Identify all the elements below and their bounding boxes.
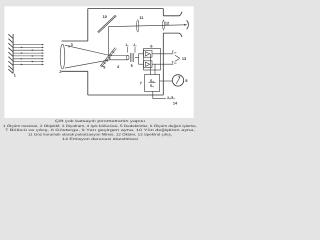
svg-text:3: 3 <box>71 43 73 47</box>
figure panel <box>4 6 193 118</box>
tube 4 <box>110 55 129 59</box>
ray arrowheads <box>21 44 44 65</box>
filters 5 <box>127 47 135 62</box>
lower detector <box>144 61 153 68</box>
detector box 6 <box>144 49 161 71</box>
svg-text:6: 6 <box>150 45 152 49</box>
split vertical <box>138 54 140 64</box>
svg-text:7 Bölücü ve çıkış, 8 Gösterge,: 7 Bölücü ve çıkış, 8 Gösterge, 9 Yarı ge… <box>5 128 195 132</box>
wire to ratio box (lower) <box>154 64 156 74</box>
vertical beam to mirror <box>108 27 110 56</box>
svg-text:10: 10 <box>103 15 107 19</box>
meter 8 <box>172 75 183 86</box>
housing right wall upper <box>162 9 164 16</box>
svg-text:λ₁/λ₂: λ₁/λ₂ <box>166 96 175 100</box>
eyepiece lens 12 <box>162 20 164 31</box>
lens 11 <box>137 20 139 32</box>
housing top line <box>88 8 164 10</box>
eyepiece tube bottom <box>163 33 182 37</box>
top beam to eye <box>109 25 186 27</box>
svg-text:1: 1 <box>14 74 16 78</box>
housing left vertical (lower) <box>87 71 89 95</box>
eye symbol <box>184 20 188 29</box>
object wall 1 <box>8 34 13 74</box>
housing bottom plate <box>62 70 88 72</box>
svg-text:8: 8 <box>185 79 187 83</box>
svg-text:T₂ₑ: T₂ₑ <box>172 61 177 65</box>
upper output to T1 <box>152 53 173 55</box>
svg-text:T₁ₑ: T₁ₑ <box>172 50 177 54</box>
mirror 10 <box>98 15 116 32</box>
diaphragm 3 tick <box>68 45 70 48</box>
lower output to T2 <box>152 63 173 65</box>
T1 T2 output labels <box>172 50 177 64</box>
svg-text:Çift çok katsayılı pirometreni: Çift çok katsayılı pirometrenin yapısı <box>55 119 145 123</box>
rays from object <box>13 45 42 65</box>
cone top line <box>65 45 110 55</box>
brace 13 <box>175 55 180 58</box>
svg-text:11: 11 <box>139 16 143 20</box>
upper detector <box>144 50 153 57</box>
svg-text:14 Emisyon derecesi düzeltmesi: 14 Emisyon derecesi düzeltmesi <box>62 137 138 141</box>
svg-text:2: 2 <box>59 70 61 74</box>
housing top plate <box>62 40 88 42</box>
S1/S2 fraction in box 7 <box>150 79 154 88</box>
svg-text:13: 13 <box>182 57 186 61</box>
lambda labels over filters <box>125 43 138 47</box>
wire box7 to meter <box>160 80 173 82</box>
svg-text:7: 7 <box>140 81 142 85</box>
upper channel line <box>139 53 144 55</box>
numeral labels <box>14 15 188 106</box>
lower channel line <box>139 63 144 65</box>
objective lens 2 <box>60 44 65 69</box>
housing right wall lower <box>162 33 164 95</box>
svg-text:λ₁: λ₁ <box>125 43 129 47</box>
beam to split <box>135 57 139 59</box>
wire to ratio box (upper) <box>149 54 151 75</box>
housing left vertical (upper) <box>87 9 89 41</box>
svg-text:S₁: S₁ <box>150 79 154 83</box>
svg-text:11 Göz korumalı olarak polariz: 11 Göz korumalı olarak polarizasyon filt… <box>28 133 172 137</box>
output wire from box7 <box>152 91 154 98</box>
housing bottom line <box>88 94 164 96</box>
svg-text:S₂: S₂ <box>150 84 154 88</box>
svg-text:5: 5 <box>131 64 133 68</box>
ratio box 7 <box>145 75 160 92</box>
svg-text:12: 12 <box>165 21 169 25</box>
beam splitter 9 <box>100 48 116 68</box>
eyepiece tube top <box>163 12 182 16</box>
svg-text:9: 9 <box>103 65 105 69</box>
cone bottom line <box>65 60 110 68</box>
